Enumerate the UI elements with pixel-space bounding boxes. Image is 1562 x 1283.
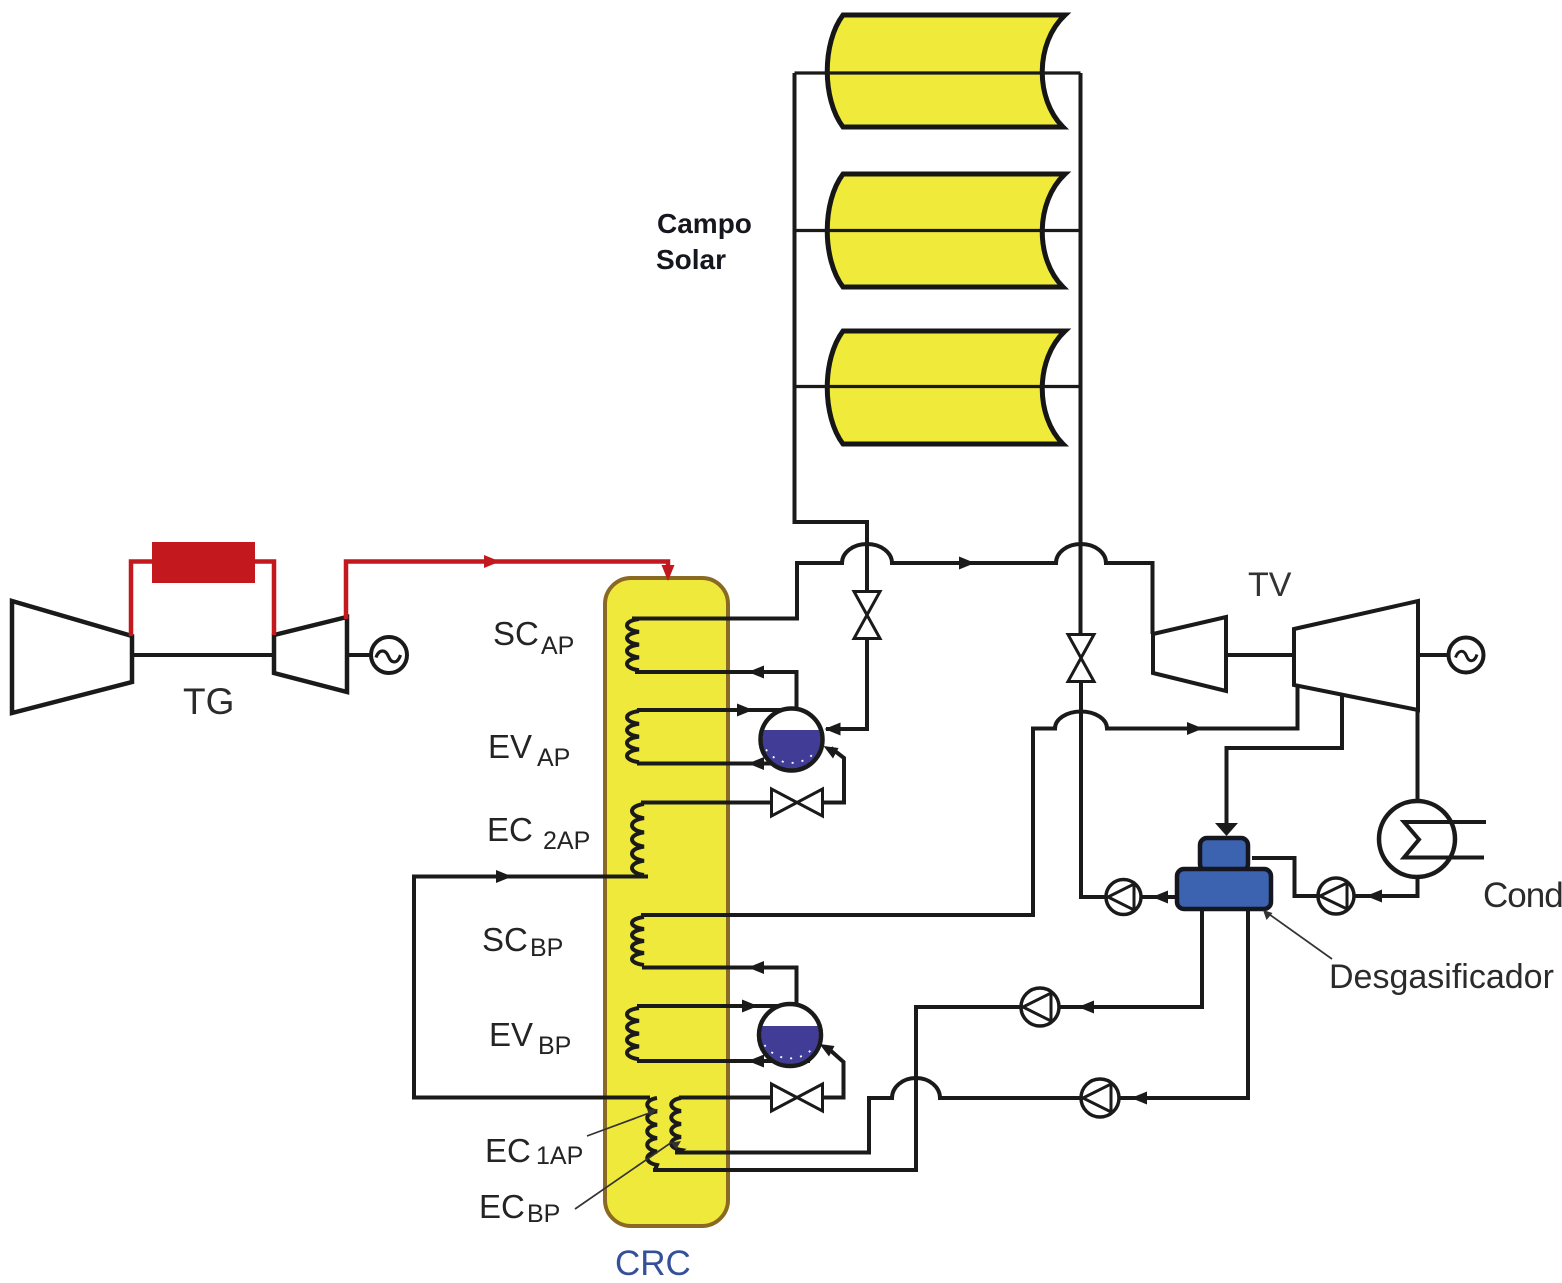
svg-text:SC: SC [482,921,528,958]
svg-text:CRC: CRC [615,1244,691,1283]
svg-text:2AP: 2AP [543,827,590,855]
svg-text:Solar: Solar [656,244,726,275]
svg-text:SC: SC [493,615,539,652]
svg-text:BP: BP [530,934,563,962]
svg-text:AP: AP [541,632,574,660]
svg-text:BP: BP [527,1200,560,1228]
svg-text:EC: EC [479,1188,525,1225]
svg-text:Desgasificador: Desgasificador [1329,958,1554,996]
svg-text:Cond: Cond [1483,876,1562,915]
svg-text:Campo: Campo [657,208,752,239]
svg-text:EV: EV [488,728,532,765]
svg-text:EV: EV [489,1016,533,1053]
svg-text:BP: BP [538,1032,571,1060]
svg-text:TG: TG [183,681,234,722]
svg-text:TV: TV [1248,566,1292,604]
svg-text:EC: EC [485,1132,531,1169]
svg-text:EC: EC [487,811,533,848]
svg-text:AP: AP [537,744,570,772]
svg-text:1AP: 1AP [536,1142,583,1170]
